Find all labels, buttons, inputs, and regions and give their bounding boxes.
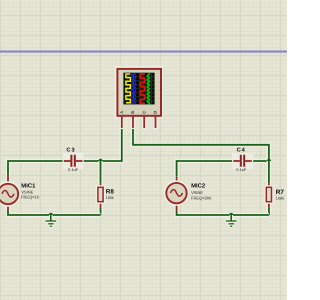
wire R7 bottom to ground rail [267,207,272,215]
oscilloscope screen [123,73,154,105]
junction dot left ground [49,213,53,217]
ground symbol right [226,215,237,226]
svg-text:R7: R7 [276,189,285,196]
svg-text:R8: R8 [106,188,115,195]
wire MIC1 top to node A (through C3) [8,161,101,175]
svg-text:MIC2: MIC2 [191,183,206,190]
svg-text:A: A [119,111,124,114]
screen graticule [124,73,155,104]
resistor R7 [266,183,271,207]
sheet border line [0,51,287,53]
oscilloscope pin A stub [120,117,124,130]
wire bottom-left ground rail [8,210,101,215]
wire node A to scope pin A [101,128,122,161]
svg-text:C4: C4 [237,148,246,154]
wire node B down to R7 [267,161,272,183]
oscilloscope pin B stub [131,117,135,130]
capacitor C4 [232,153,253,169]
svg-text:C: C [141,111,146,114]
oscilloscope pin C stub [142,117,146,130]
channel D trace (green sine) [147,73,149,104]
svg-text:0.1uF: 0.1uF [236,167,247,172]
svg-text:D: D [153,111,158,114]
wire R8 bottom to ground rail [98,207,103,215]
wire node A down to R8 [98,161,103,183]
wire scope pin B to node B [133,128,269,161]
node B junction dot [267,159,271,163]
svg-text:B: B [130,111,135,114]
oscilloscope body [116,68,162,130]
svg-text:C3: C3 [66,147,75,153]
svg-text:FREQ=10: FREQ=10 [21,195,40,200]
junction dot right ground [229,213,233,217]
svg-text:100k: 100k [106,196,114,200]
source MIC2 (VSINE) [166,177,186,211]
channel B trace (blue zigzag) [132,73,135,104]
oscilloscope pin D stub [153,117,157,130]
node A junction dot [98,159,102,163]
svg-text:FREQ=300: FREQ=300 [191,195,212,200]
ground symbol left [46,215,57,226]
resistor R8 [98,183,103,207]
wire MIC2 top to node B (through C4) [177,161,269,177]
capacitor C3 [63,153,84,169]
wire bottom-right ground rail [177,210,269,215]
source MIC1 (VSINE) [0,175,18,211]
channel C trace (red rounded square wave) [141,74,145,103]
svg-text:100k: 100k [276,197,284,201]
channel A trace (yellow square wave) [126,74,130,103]
svg-text:0.1uF: 0.1uF [68,167,79,172]
svg-text:VSINE: VSINE [191,190,203,195]
